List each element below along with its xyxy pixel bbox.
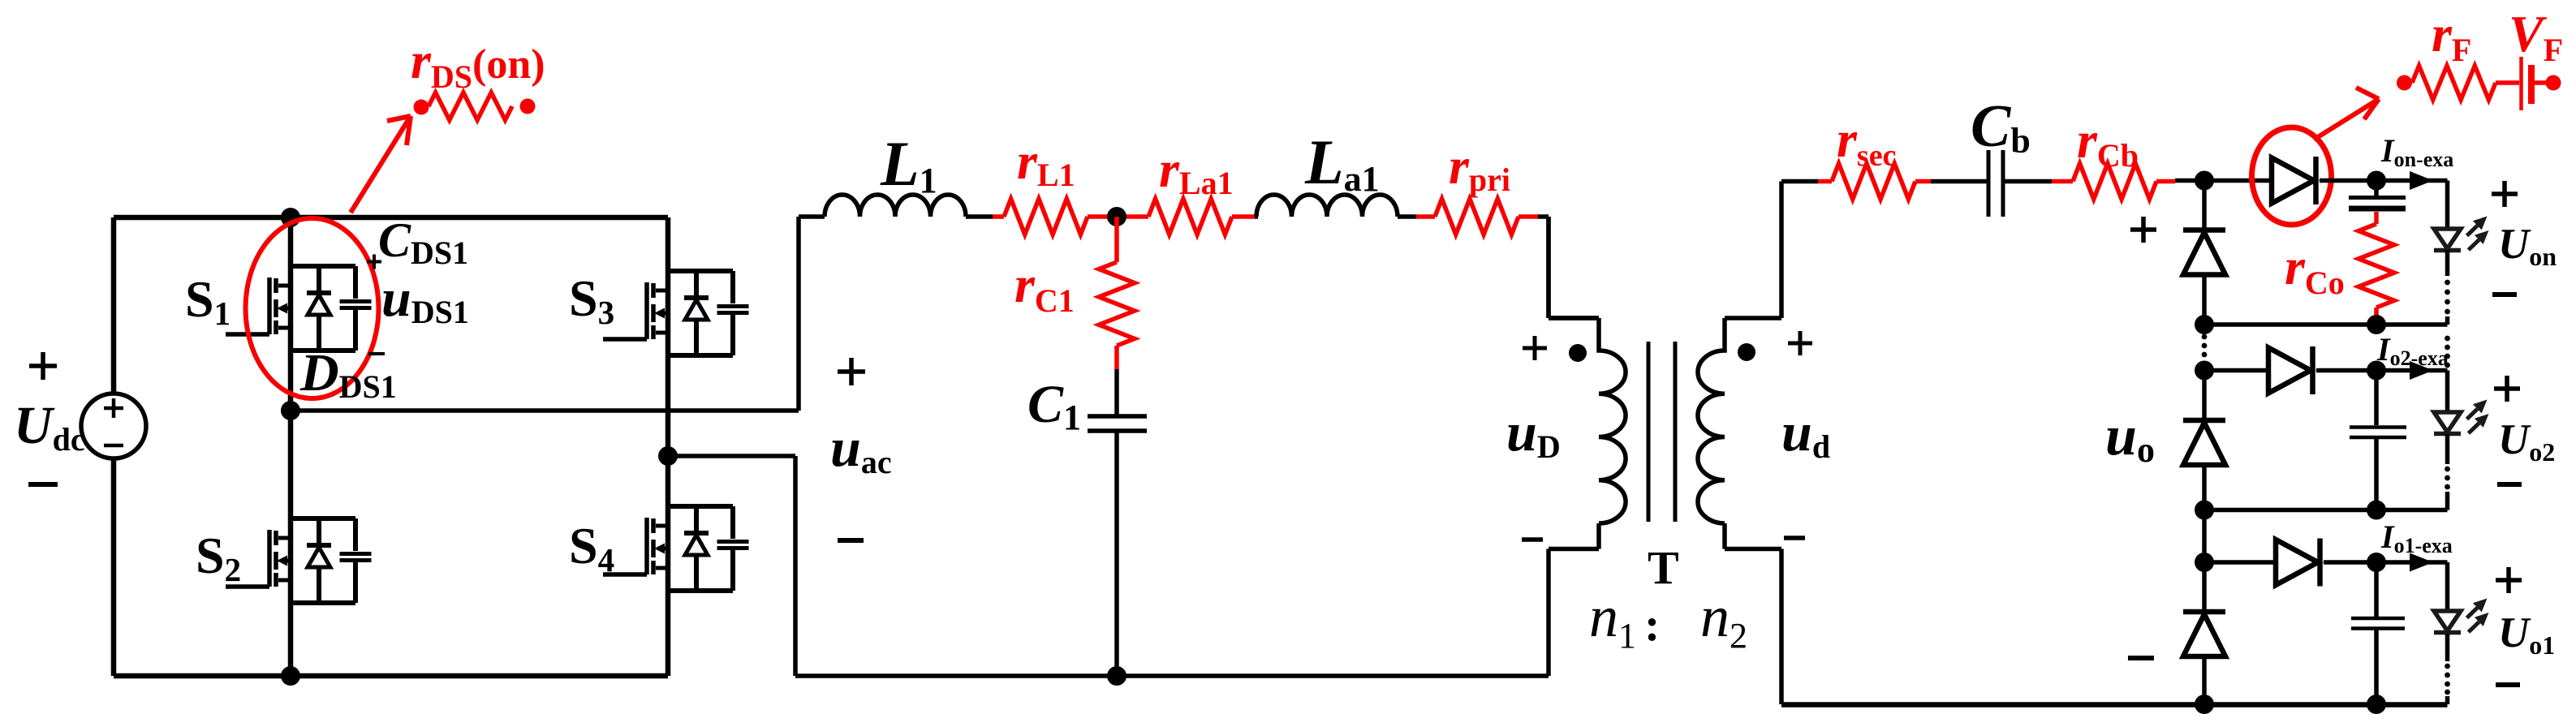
wire stub red after rLa1 — [1232, 214, 1255, 219]
dotted rail (left, between channels) — [2202, 334, 2208, 340]
dotted rail (channel o1 LED string) — [2445, 664, 2450, 669]
label + (uo positive) — [2130, 217, 2156, 243]
annotation ellipse around S1 — [246, 218, 379, 398]
polarity - for uDS1 — [368, 352, 385, 355]
node: channel o1 cap bottom — [2367, 695, 2386, 714]
diode (channel o1 series) — [2276, 540, 2318, 585]
node: right leg midpoint — [658, 446, 678, 466]
dotted rail (channel o2 LED string) — [2445, 467, 2450, 472]
node: C1 to bottom rail — [1107, 666, 1126, 686]
resistor rF left terminal — [2397, 75, 2412, 91]
svg-text:rDS(on): rDS(on) — [411, 32, 545, 95]
label + (ud positive) — [1788, 331, 1812, 355]
wire: stack left rail segment 5 — [2202, 562, 2207, 612]
wire stub red after rpri — [1518, 214, 1538, 219]
node: top of left leg — [281, 208, 300, 227]
node: channel o1 bottom-left — [2195, 695, 2214, 714]
wire stub red after rsec — [1915, 179, 1931, 184]
wire: tank input — [799, 214, 825, 219]
transformer primary winding — [1549, 217, 1626, 676]
diode (stack vertical, channel n) — [2183, 227, 2225, 233]
resistor rDS(on) symbol left terminal — [414, 100, 429, 115]
label + (Uon) — [2492, 181, 2518, 207]
wire stub red before rsec — [1818, 179, 1832, 184]
wire: channel o1 top left — [2204, 560, 2276, 565]
wire: right-leg output return (horizontal) — [668, 454, 795, 458]
wire stub red before rpri — [1416, 214, 1435, 219]
secondary polarity dot — [1738, 343, 1755, 361]
dotted rail (right, between channels) — [2445, 336, 2450, 342]
wire: channel o1 right rail below LED — [2445, 634, 2450, 661]
wire red VF to terminal — [2535, 80, 2546, 85]
wire: output bottom rail — [1781, 702, 2448, 708]
capacitor Cb — [1988, 150, 2003, 217]
wire: channel o2 right rail below LED — [2445, 434, 2450, 464]
current arrow Io2-exa — [2410, 361, 2433, 380]
wire: channel n top — [2320, 179, 2448, 183]
wire: rC1 to C1 capacitor — [1114, 369, 1119, 415]
node: channel n cap bottom — [2367, 315, 2386, 334]
diode (stack vertical, channel o2) — [2183, 418, 2225, 424]
wire: channel o2 bottom — [2204, 508, 2448, 513]
VF right terminal — [2546, 75, 2561, 91]
wire red rCo to bottom — [2374, 308, 2379, 325]
inductor L1 — [825, 195, 966, 217]
label + (Uo1) — [2496, 567, 2522, 593]
wire: channel n bottom — [2204, 322, 2448, 327]
resistor rC1 — [1099, 262, 1135, 346]
LED channel o1 — [2434, 611, 2461, 631]
label - (Uo2) — [2497, 482, 2522, 487]
wire: channel o1 right rail top — [2445, 562, 2450, 611]
wire: channel o2 right rail top — [2445, 371, 2450, 412]
wire: channel n right rail top — [2445, 181, 2450, 230]
wire: tank bottom rail — [795, 673, 1549, 678]
wire: channel n right rail below LED — [2445, 250, 2450, 276]
wire: channel o2 top — [2316, 368, 2448, 373]
wire stub red before rCb — [2052, 179, 2073, 184]
diode (channel o2 series) — [2268, 348, 2311, 394]
LED channel n — [2434, 229, 2461, 249]
wire: channel o1 right rail bottom — [2445, 696, 2450, 704]
node: channel n bottom-left — [2195, 315, 2214, 334]
diode (stack vertical, channel o1) — [2183, 609, 2225, 615]
label - (Uo1) — [2496, 682, 2520, 687]
node: channel o1 top-left — [2195, 553, 2214, 572]
wire: stack left rail segment 3 — [2202, 371, 2207, 421]
wire: stack left rail segment 2 — [2202, 275, 2207, 325]
label + (uD positive) — [1523, 336, 1547, 360]
wire: L1 to rL1 — [966, 214, 993, 219]
wire red rC1 to C1 — [1114, 346, 1119, 369]
svg-text::: : — [1644, 598, 1660, 651]
resistor rCb — [2073, 164, 2156, 200]
resistor rCo — [2358, 224, 2394, 308]
wire: channel o1 top — [2324, 560, 2448, 565]
wire red rL1 to node — [1088, 214, 1148, 219]
node: left leg midpoint — [281, 401, 300, 420]
wire: bridge left leg — [288, 217, 294, 676]
label - (uD negative) — [1522, 537, 1543, 542]
wire: dc link left conductor (top) — [111, 217, 117, 394]
wire: rsec to Cb — [1931, 179, 1987, 184]
transformer secondary winding — [1698, 182, 1781, 705]
transformer core — [1648, 342, 1675, 522]
transistor S2 — [226, 518, 372, 603]
inductor La1 — [1256, 195, 1398, 217]
label - (uac negative) — [838, 538, 864, 543]
wire: channel o2 top left — [2204, 368, 2268, 373]
wire: channel o2 right rail bottom — [2445, 492, 2450, 510]
wire: stack left rail segment 4 — [2202, 465, 2207, 562]
transistor S3 — [603, 271, 749, 355]
annotation arrow to rF VF — [2314, 88, 2379, 140]
label - (Uon) — [2492, 292, 2517, 297]
diode (channel n series) — [2272, 158, 2314, 204]
resistor rpri — [1435, 199, 1518, 234]
node: channel n cap top — [2367, 171, 2386, 191]
wire: bridge bottom rail — [114, 673, 668, 679]
dc source internal - polarity — [104, 444, 123, 448]
wire: left-leg output to tank (horizontal) — [291, 408, 799, 413]
current arrow Io1-exa — [2410, 553, 2433, 572]
label + (Udc positive) — [29, 352, 57, 380]
resistor rF zigzag — [2412, 66, 2496, 100]
transistor S4 — [603, 506, 749, 591]
resistor rL1 — [1004, 199, 1088, 234]
wire: dc link left conductor (bottom) — [111, 458, 117, 676]
wire: bridge top rail — [114, 215, 668, 221]
wire: left-leg output to tank (vertical up) — [796, 217, 801, 411]
label + (uac positive) — [838, 358, 865, 385]
node: output stack top — [2195, 171, 2214, 191]
node: channel o2 cap top — [2367, 361, 2386, 381]
primary polarity dot — [1569, 344, 1587, 362]
current arrow Ion-exa — [2410, 171, 2433, 190]
wire stub red after rCb — [2156, 179, 2175, 184]
wire: bridge right leg — [666, 217, 671, 676]
wire red cap to rCo — [2374, 212, 2379, 224]
transistor S1 (MOSFET with body diode and capacitor CDS1) — [226, 266, 372, 351]
capacitor C1 — [1088, 416, 1147, 431]
dc source internal + polarity — [104, 398, 123, 418]
annotation arrow to rDS(on) — [351, 116, 411, 213]
capacitor channel n — [2374, 181, 2379, 196]
wire: stack left rail segment 6 — [2202, 656, 2207, 704]
wire: channel n right rail bottom — [2445, 316, 2450, 325]
node: channel o2 bottom-left — [2195, 501, 2214, 520]
battery VF — [2519, 57, 2523, 110]
wire: rCb to output node and diode — [2175, 179, 2272, 183]
resistor rLa1 — [1148, 199, 1232, 234]
polarity + for uDS1 — [367, 255, 381, 269]
wire: secondary to rsec — [1781, 179, 1818, 184]
label - (uo negative) — [2128, 656, 2154, 660]
capacitor channel o1 — [2374, 562, 2379, 617]
wire: tank output corner to transformer — [1538, 217, 1599, 318]
label - (Udc negative) — [28, 482, 58, 487]
dotted rail (channel n LED string) — [2445, 280, 2450, 286]
annotation ellipse around output diode — [2252, 127, 2332, 225]
wire: Cb to rCb — [2005, 179, 2052, 184]
wire red rF to VF — [2496, 80, 2519, 85]
capacitor channel o2 — [2374, 371, 2379, 426]
LED channel o2 — [2434, 412, 2461, 432]
label + (Uo2) — [2494, 376, 2520, 402]
wire red node to rC1 — [1114, 217, 1119, 262]
node: channel o2 top-left — [2195, 361, 2214, 381]
node: resonant tank tap (C1 branch) — [1107, 207, 1126, 226]
dc source Udc circle — [81, 394, 146, 458]
node: channel o1 cap top — [2367, 553, 2386, 572]
wire: to La1 — [1255, 214, 1258, 219]
wire: La1 to rpri — [1398, 214, 1416, 219]
label - (ud negative) — [1784, 536, 1805, 540]
node: channel o2 cap bottom — [2367, 501, 2386, 520]
wire stub red before rL1 — [993, 214, 1004, 219]
resistor rsec — [1832, 164, 1915, 200]
wire: stack left rail segment 1 — [2202, 181, 2207, 230]
node: bottom of left leg — [281, 666, 300, 686]
wire: right-leg output return (vertical down) — [793, 456, 798, 676]
resistor rDS(on) zigzag — [429, 92, 512, 120]
resistor rDS(on) right terminal — [520, 99, 536, 114]
svg-text:T: T — [1648, 541, 1679, 594]
